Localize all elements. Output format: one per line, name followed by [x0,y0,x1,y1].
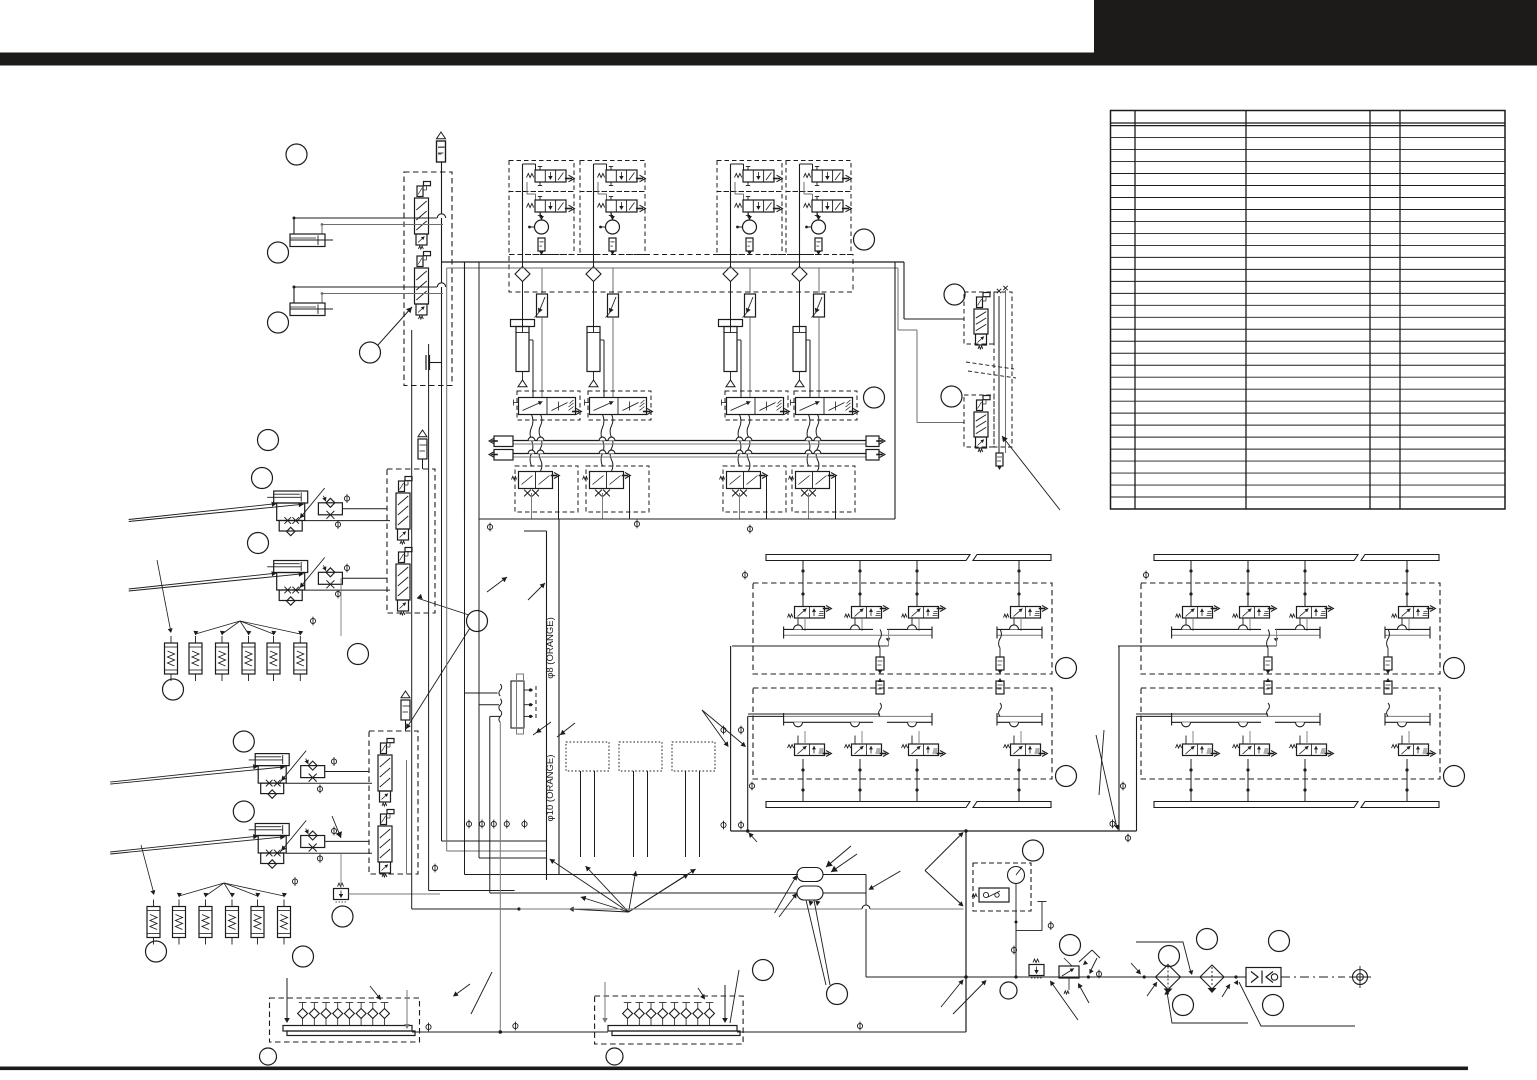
supply rail lower [513,450,866,457]
phi mark block 2 [634,520,639,529]
wire FB1 to B1 [305,509,390,521]
rail end right bottom [866,450,885,461]
phi FC2 a [331,827,336,836]
exhaust triangle 4 [795,372,804,387]
pressure gauge 4 [805,215,825,234]
solenoid valve 2B [598,197,646,216]
rail end left bottom [489,450,513,461]
pilot valve A2 [415,252,431,320]
block2 phi a [1110,819,1115,828]
callout circle 8 [467,611,488,632]
flex and silencer top 1154 [1264,629,1272,674]
flow control 1 [535,268,548,397]
wire silencer SB1 [422,459,424,469]
wire valve4B to gauge [817,212,819,220]
spring cartridge 1-1 [165,636,178,681]
page header black block top-right [1094,0,1537,53]
hv leaders [1050,958,1097,1020]
silencer 1 [538,238,545,255]
valve T2 bank 766 [845,561,889,632]
flex hose 2b [610,415,613,472]
pilot valve A1 [415,182,431,250]
pilot valve low 1 dashed box [515,466,578,512]
page header black bar [0,53,1537,66]
block2 feed vertical a [1118,646,1120,831]
block1 phi b [738,726,743,735]
flex hose 4b [816,415,819,472]
solenoid valve 4B [804,197,852,216]
callout circle 11 [233,731,254,752]
silencer SR [996,453,1003,470]
exhaust triangle 1 [518,372,527,387]
valve B3 bank 1154 [1290,731,1334,802]
oval arrows right [826,846,857,872]
phi station C [292,877,297,886]
pilot valve low 3 dashed box [723,466,786,512]
valve T3 bank 766 [902,561,946,632]
leader to valve A [378,307,412,345]
valve B1 bank 766 [788,731,832,802]
tube column 3 [686,771,700,857]
callout circle 5 [258,430,279,451]
cylinder assembly CB1 [129,488,325,536]
silencer 2 [609,238,616,255]
oval coupler 1 [797,868,823,882]
callout circle 14 [293,946,314,967]
wire valve3B to gauge [748,212,750,220]
pressure gauge 1 [528,215,548,234]
solenoid group 2 upper dashed box [580,161,645,192]
valve B4 bank 1154 [1392,731,1436,802]
exhaust triangle 3 [726,372,735,387]
air filter F1 [1156,965,1181,994]
phi mark block 3 [747,525,752,534]
pilot valve low 4 dashed box [792,466,855,512]
wire valve2B to gauge [611,212,613,220]
cylinder assembly CB2 [129,558,325,606]
frl arrow 4 [1147,982,1157,996]
callout circle 15 [332,906,353,927]
silencer SB1 [418,430,427,459]
right station verticals [999,290,1006,453]
pilot valve low 2 dashed box [586,466,649,512]
solenoid valve 4A [804,167,852,186]
solenoid group 4 upper dashed box [786,161,851,192]
callout circle 22 [260,1048,277,1065]
wire lowvalve1 drain [532,476,559,520]
callout circle 1 [286,144,307,165]
block1 phi a [721,726,726,735]
wire cyl4 side [806,340,810,397]
distribution rail bottom 1154 [1154,802,1439,808]
callout circle 6 [252,468,273,489]
phi top rail b1 [742,571,747,580]
callout circle 26 [1159,946,1180,967]
valve T4 bank 1154 [1392,561,1436,632]
spring cartridge 2-2 [173,900,186,945]
pipe arrows top [487,577,545,600]
manifold 2 leaders [698,970,739,1023]
callout circle 24b [1000,982,1017,999]
tube column 1 [581,771,595,857]
phi bottom rail b2 [1120,782,1125,791]
valve bank top dashed box 1154 [1141,583,1440,674]
manifold 2 arrow a [602,982,608,1023]
parts table grid [1111,111,1506,510]
cylinder assembly CC2 [110,821,306,869]
flex and silencer bottom 1154 [1264,678,1272,716]
spring cartridge 1-2 [189,636,202,681]
flow control FB1 [318,496,342,519]
bus corner right [904,262,964,319]
flex hose 3b [747,415,750,472]
valve B2 bank 1154 [1233,731,1277,802]
block1 feed vertical b [748,716,784,831]
phi FC1 b [317,785,322,794]
main valve 4 dashed box [794,391,857,420]
callout circle 27 [1197,929,1218,950]
phi manifold line b [513,1022,518,1031]
psw wires [1014,902,1046,979]
svg-text:φ8 (ORANGE): φ8 (ORANGE) [545,617,556,679]
silencer 4 [815,238,822,255]
bus line h1 [547,868,591,870]
spring cartridge 2-4 [226,900,239,945]
valve station C dashed box [369,731,418,874]
manifold 2 dashed box [595,996,744,1044]
pilot valve B1 [396,477,412,545]
spring cartridge fan 1 [157,560,303,636]
callout circle 16 [827,984,848,1005]
cylinder C2 [587,327,600,372]
frl arrow [1087,963,1146,979]
callout circle 30 [1263,995,1284,1016]
phi mark block 1 [487,523,492,532]
solenoid valve 3B [735,197,783,216]
main valve 3 [722,398,790,415]
valve bank bottom dashed box 766 [753,688,1052,779]
spring cartridge 2-5 [251,900,264,945]
wire lowvalve3 drain [740,476,767,520]
valve B3 bank 766 [902,731,946,802]
valve T2 bank 1154 [1233,561,1277,632]
main valve 4 [791,398,859,415]
manifold link line [412,1030,966,1034]
center block left border [464,262,466,519]
flex and silencer bottom2 766 [996,678,1004,716]
pipe label phi8 [545,617,556,679]
air supply line [866,976,1246,978]
wire C arrow [332,816,342,838]
valve station B dashed box [387,469,435,613]
supply rail upper [513,437,866,444]
center block right border [894,262,896,519]
block2 phi b [1125,834,1130,843]
callout circle 12 [233,801,254,822]
flex hose 2a [601,415,604,467]
bus corner right 2 [898,268,964,423]
check valve 2 [586,262,601,326]
harness phi marks [466,821,471,826]
manifold 1 dashed box [270,998,420,1042]
callout circle 7 [248,533,269,554]
pilot valve R2 [974,396,990,453]
solenoid group 1 upper dashed box [509,161,574,192]
main line mid horizontal [731,829,1137,832]
phi FB1 b [335,520,340,529]
solenoid valve 1B [527,197,575,216]
cylinder C1 [511,316,535,372]
junction block [499,674,536,1032]
block2 feed vertical b [1137,716,1172,831]
flow control FC1 [301,759,325,782]
phi manifold line c [857,1022,862,1031]
block1 feed vertical a [730,646,732,831]
frl leader 1 [1136,942,1193,975]
cylinder CA2 [290,303,333,316]
callout circle 4 [360,342,381,363]
sub rail bottom 1154 [1172,713,1430,727]
flex hose 1b [539,415,542,472]
flow control 3 [743,268,756,397]
tube fan arrows [550,859,696,912]
phi frl [1096,970,1101,979]
spring cartridge 1-5 [267,636,280,681]
frl leader 2 [1164,990,1248,1023]
distribution rail top 766 [766,555,1051,561]
cylinder C4 [793,327,806,372]
flex hose 4a [807,415,810,467]
callout circle 28 [1269,931,1290,952]
rail end left top [489,436,513,447]
phi station B [310,617,315,626]
hand valve HV [1059,950,1100,994]
silencer 3 [746,238,753,255]
quick coupler QC [1246,968,1281,987]
wire harness verticals [407,268,799,911]
callout circle 17 [944,284,965,305]
block1 leaders [702,710,746,747]
cylinder C3 [719,316,743,372]
solenoid group 3 upper dashed box [717,161,782,192]
feed lines 1154 [1118,629,1278,714]
callout circle 9 [348,644,369,665]
flex and silencer bottom 766 [876,678,884,716]
manifold 2 [608,1003,740,1036]
callout bracket [869,832,964,907]
check valve 3 [723,262,738,326]
callout circle bank 1154 a [1444,658,1465,679]
valve station A dashed box [404,172,452,386]
main valve 1 dashed box [517,391,580,420]
check valve 1 [515,262,530,326]
phi manifold line a [426,1023,431,1032]
callout circle 24 [1023,840,1044,861]
flow control 4 [812,268,825,397]
secondary bus line [447,267,898,269]
sub rail bottom 766 [784,713,1042,727]
callout circle 20 [864,387,885,408]
pilot valve C2 [378,810,394,878]
flex and silencer top 766 [876,629,884,674]
solenoid valve 2A [598,167,646,186]
spring cartridge 1-3 [216,636,229,681]
solenoid group 2 lower dashed box [580,192,645,255]
valve bank top dashed box 766 [753,583,1052,674]
pilot valve B2 [396,548,412,616]
pilot valve low 2 [583,472,631,497]
manifold 1 arrow b [404,990,410,1029]
wire reg link [341,853,440,894]
regulator RG1 [1029,959,1044,978]
spring cartridge 1-4 [242,636,255,681]
manifold 1 arrow a [284,978,290,1023]
wire cyl2 side [600,340,604,397]
phi top rail b2 [1143,571,1148,580]
pipe arrows mid [533,722,575,737]
sub rail top 766 [784,625,1042,639]
valve T4 bank 766 [1004,561,1048,632]
callout circle 21 [753,960,774,981]
check valve 4 [792,262,807,326]
tube column 2 [634,771,648,857]
wire A-cyl1 b [321,223,443,234]
phi FB1 a [344,494,349,503]
block1 bottom arrow [749,833,758,843]
spring cartridge 2-3 [199,900,212,945]
spring cartridge fan 2 [141,845,287,898]
phi FB2 b [335,590,340,599]
oval leaders [775,875,830,985]
silencer SC1 [401,691,410,720]
phi FC1 a [331,757,336,766]
regulator RC [334,883,349,902]
wire A-cyl2 a [293,283,446,303]
cylinder assembly CC1 [110,751,306,799]
plug fitting A [426,355,442,370]
solenoid group 1 lower dashed box [509,192,574,255]
sub rail top 1154 [1172,625,1430,639]
wire valve1B to gauge [540,212,542,220]
callout circle 25 [1060,935,1081,956]
callout circle 23 [606,1048,623,1065]
frl leader 3 [1234,975,1355,1026]
pilot valve low 1 [512,472,560,497]
callout circle 18 [941,386,962,407]
wide dashed box check-valve row [509,255,853,293]
pipe main vertical [524,519,559,880]
right station tall dashed box [994,292,1012,447]
pressure gauge 2 [599,215,619,234]
phi FB2 a [344,564,349,573]
block1 phi c [721,821,726,830]
solenoid group 3 lower dashed box [717,192,782,255]
flex and silencer top2 766 [996,629,1004,674]
valve B2 bank 766 [845,731,889,802]
exhaust triangle 2 [589,372,598,387]
block1 phi d [738,821,743,830]
callout circle bank 1154 b [1444,766,1465,787]
callout circle bank 766 b [1056,766,1077,787]
manifold 1 leaders [370,986,471,1014]
valve T3 bank 1154 [1290,561,1334,632]
tube dotted box 3 [672,742,715,771]
leader R arrow [1002,436,1060,510]
valve B1 bank 1154 [1176,731,1220,802]
wire col3 header [731,164,744,262]
solenoid valve 3A [735,167,783,186]
oval coupler 2 [797,886,823,900]
supply junction arrows [941,980,987,1015]
main valve 3 dashed box [725,391,788,420]
main valve 1 [514,398,582,415]
wire col1 header [523,164,536,262]
wire col4 header [800,164,813,262]
phi psw2 [1011,946,1016,955]
phi bottom rail b1 [749,782,754,791]
rail end right top [866,436,885,447]
pilot valve low 3 [720,472,768,497]
distribution rail top 1154 [1154,555,1439,561]
wire silencer SC1 [405,720,407,731]
wire col2 header [594,164,607,262]
phi FC2 b [317,854,322,863]
cylinder CA1 [290,234,333,247]
spring row1 bus [171,635,300,637]
callout circle 29 [1173,995,1194,1016]
wire springrow1 link [300,578,341,636]
tube dotted box 1 [566,742,609,771]
main air bus line [442,261,905,263]
manifold line arrows [453,972,492,1014]
supply dash-dot line [1281,976,1345,978]
break mark [966,362,1016,378]
valve T1 bank 766 [788,561,832,632]
callout circle 13 [146,941,167,962]
wire silencer SA1 down [441,162,443,386]
valve B4 bank 766 [1004,731,1048,802]
pilot valve R1 [974,293,990,350]
right station dashed box 2 [964,395,994,447]
leader to valve B [406,594,470,729]
flex hose 3a [738,415,741,467]
callout circle 19 [854,229,875,250]
spring cartridge 1-6 [294,636,307,681]
flex and silencer bottom2 1154 [1384,678,1392,716]
valve T1 bank 1154 [1176,561,1220,632]
spring cartridge 2-6 [278,900,291,945]
callout circle bank 766 a [1056,658,1077,679]
bus line h3 [823,875,866,894]
pilot valve C1 [378,739,394,807]
main drop vertical [964,831,968,1032]
feed lines 766 [732,629,890,714]
phi psw [1048,921,1053,930]
callout circle 10 [163,679,184,700]
flow control FC2 [301,829,325,852]
right station dashed box 1 [964,292,994,344]
pilot valve low 4 [789,472,837,497]
solenoid valve 1A [527,167,575,186]
bus line h4 [520,875,964,978]
flow control FB2 [318,565,342,588]
pressure switch PS [972,863,1031,911]
manifold 1 [283,1003,415,1036]
flex and silencer top2 1154 [1384,629,1392,674]
wire FC2 to C2 [286,841,372,853]
wire FB2 to B2 [305,578,390,590]
wire A-cyl1 a [293,214,446,234]
